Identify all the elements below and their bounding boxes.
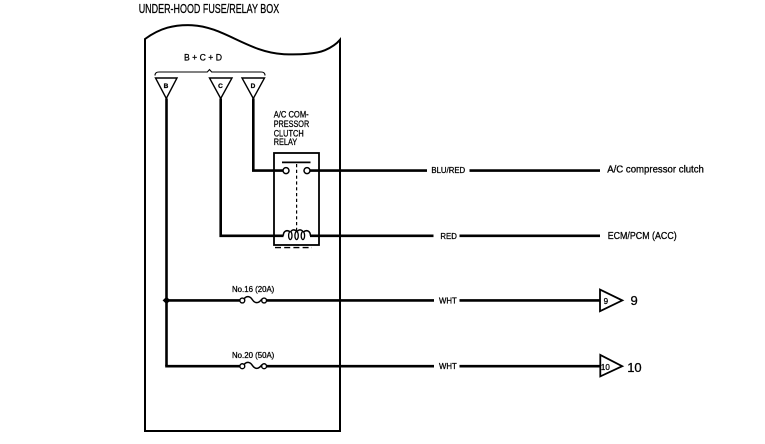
relay contact left [283,168,289,174]
connector B triangle [156,78,178,99]
svg-text:ECM/PCM (ACC): ECM/PCM (ACC) [608,231,677,242]
wire from connector B down to fuse branches [165,99,168,367]
svg-text:9: 9 [631,293,638,308]
svg-text:UNDER-HOOD FUSE/RELAY BOX: UNDER-HOOD FUSE/RELAY BOX [139,2,280,16]
fuse/relay box outline (wavy top) [145,25,340,431]
junction node on wire B [163,297,171,304]
bracket over connectors [155,70,265,76]
svg-text:D: D [251,83,256,90]
wire from connector D down then right to relay contact [253,99,283,171]
svg-text:No.16 (20A): No.16 (20A) [232,285,275,294]
wire from connector C down then right to relay coil [221,99,284,236]
svg-text:WHT: WHT [439,296,457,305]
connector D triangle [242,78,265,99]
svg-text:C: C [218,83,223,90]
fuse No.16 symbol [240,298,245,303]
svg-text:RED: RED [440,232,457,241]
relay switch bar [282,161,311,163]
relay plunger dashed line [296,164,298,231]
svg-text:WHT: WHT [439,362,457,371]
relay U1 box [274,153,319,245]
svg-text:B + C + D: B + C + D [184,52,222,63]
connector C triangle [210,78,233,99]
wire BLU/RED from relay to A/C compressor clutch [310,169,427,172]
svg-text:10: 10 [627,360,641,375]
relay coil [283,230,310,236]
fuse No.20 symbol [240,364,245,369]
wire WHT continues to arrow 9 [267,299,434,302]
svg-text:B: B [164,83,169,90]
wire WHT continues to arrow 10 [267,365,434,368]
svg-text:9: 9 [604,297,609,306]
svg-text:No.20 (50A): No.20 (50A) [232,351,275,360]
relay contact right [304,168,310,174]
wire WHT no.20 branch [167,365,240,366]
wire RED from relay coil to ECM/PCM [310,235,434,238]
svg-text:RELAY: RELAY [274,137,298,148]
svg-text:A/C compressor clutch: A/C compressor clutch [607,164,704,175]
relay bottom dashed artifact [275,247,312,249]
wire WHT no.16 branch [167,299,240,302]
arrow connector 9 [600,290,622,312]
svg-text:BLU/RED: BLU/RED [431,166,465,175]
svg-text:10: 10 [601,363,610,372]
arrow connector 10 [600,355,622,377]
